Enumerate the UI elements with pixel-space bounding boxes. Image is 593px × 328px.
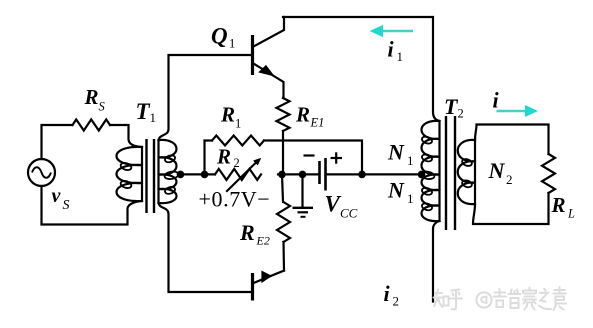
resistor RS [73, 120, 111, 131]
svg-text:S: S [63, 198, 70, 213]
label T2 [444, 94, 464, 121]
svg-text:2: 2 [506, 172, 513, 187]
wire T2 primary bottom [433, 221, 440, 302]
label N1 upper [387, 140, 414, 169]
svg-text:R: R [220, 103, 235, 127]
wire vS top to RS [42, 125, 73, 159]
svg-text:1: 1 [150, 110, 157, 125]
label N1 lower [387, 178, 414, 207]
wire R1 to node C [264, 141, 362, 175]
transformer T1 secondary winding [159, 140, 180, 203]
svg-text:L: L [567, 207, 575, 221]
wire T1 tap to node A [178, 173, 215, 175]
transistor Q1 base bar [251, 35, 254, 75]
svg-text:R: R [551, 193, 566, 217]
svg-text:1: 1 [407, 191, 414, 206]
label vS [52, 185, 70, 213]
wire vS bottom to T1 primary [42, 186, 143, 225]
label battery plus [331, 152, 343, 163]
svg-text:2: 2 [458, 107, 464, 121]
svg-text:1: 1 [397, 49, 404, 64]
wire node A to R1 [205, 141, 213, 175]
wire RL to T2 secondary bottom [473, 193, 549, 224]
resistor RE2 [277, 202, 290, 242]
svg-text:i: i [493, 88, 500, 113]
label VCC [325, 192, 358, 221]
svg-text:i: i [384, 281, 391, 306]
wire node B to RE2 [282, 174, 283, 202]
transistor Q2 base bar [251, 273, 254, 301]
svg-text:N: N [387, 178, 405, 203]
svg-text:R: R [239, 220, 255, 245]
label R1 [220, 103, 241, 131]
svg-text:1: 1 [407, 153, 414, 168]
node T1 center tap [177, 171, 185, 179]
svg-text:1: 1 [229, 37, 235, 51]
node G [299, 171, 307, 179]
svg-text:2: 2 [234, 156, 240, 170]
ground [293, 174, 314, 216]
node B [278, 171, 286, 179]
current arrow i (load) [497, 105, 539, 117]
svg-text:CC: CC [340, 206, 358, 221]
wire node B to battery [278, 173, 319, 175]
label RE1 [295, 103, 324, 130]
svg-text:T: T [136, 99, 151, 124]
svg-text:v: v [52, 185, 62, 207]
svg-text:E1: E1 [310, 116, 325, 130]
svg-text:E2: E2 [256, 234, 270, 248]
label RS [84, 85, 106, 114]
node T2 center tap [418, 171, 426, 179]
watermark [434, 287, 567, 310]
wire RE2 to Q2 emitter [282, 242, 285, 271]
svg-text:S: S [99, 100, 106, 114]
transistor Q1 collector [254, 17, 285, 47]
svg-text:Q: Q [211, 24, 228, 49]
resistor R1 [212, 136, 264, 146]
resistor RE1 [277, 98, 290, 131]
label RE2 [239, 220, 270, 248]
label i2 [384, 281, 400, 309]
svg-text:2: 2 [393, 294, 400, 309]
label Q1 [211, 24, 235, 51]
transformer T1 core [147, 139, 155, 213]
svg-text:V: V [325, 192, 342, 217]
label T1 [136, 99, 157, 125]
wire RE1 to node B [282, 131, 284, 174]
wire T2 secondary top to RL [475, 125, 549, 155]
svg-text:1: 1 [235, 117, 241, 131]
source vS [28, 159, 55, 186]
wire T1 secondary top to Q1 base [159, 55, 252, 140]
transformer T2 core [446, 116, 455, 230]
label R2 [216, 145, 240, 171]
wire RS to T1 primary [110, 125, 142, 147]
transformer T2 primary winding [420, 121, 440, 221]
wire T1 secondary bottom to Q2 base [159, 203, 252, 292]
svg-text:R: R [216, 145, 231, 169]
svg-text:i: i [388, 37, 395, 62]
transistor Q2 emitter [254, 271, 285, 283]
label battery minus [304, 154, 315, 156]
svg-text:+0.7V−: +0.7V− [199, 187, 271, 212]
svg-text:N: N [488, 158, 506, 183]
label i1 [388, 37, 404, 65]
current arrow i1 [370, 25, 414, 37]
label N2 [488, 158, 513, 187]
svg-text:R: R [295, 103, 310, 127]
svg-text:N: N [387, 140, 405, 165]
node A [201, 171, 209, 179]
battery VCC [320, 158, 326, 191]
label RL [551, 193, 576, 221]
transformer T2 secondary winding [458, 140, 475, 204]
resistor R2 (variable) [215, 159, 261, 192]
transformer T1 primary winding [117, 147, 143, 201]
transistor Q1 emitter [254, 64, 284, 99]
wire Q1 collector to T2 primary top [283, 17, 440, 121]
wire battery to node C [327, 173, 363, 175]
resistor RL [542, 154, 555, 193]
svg-text:R: R [84, 85, 99, 109]
wire node C to T2 tap [362, 173, 422, 175]
node C [358, 171, 366, 179]
